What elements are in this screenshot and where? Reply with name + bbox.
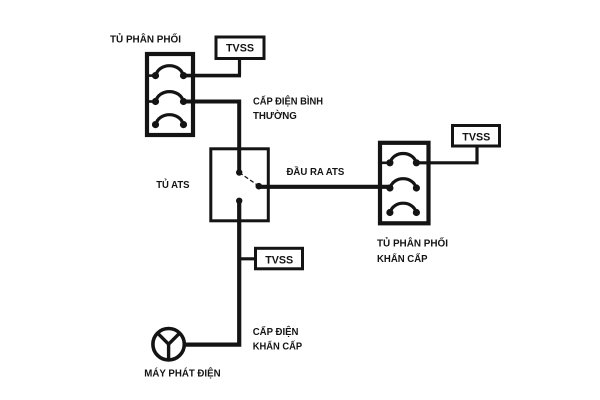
label MAY PHAT DIEN xyxy=(144,367,220,380)
svg-text:TVSS: TVSS xyxy=(462,131,490,143)
svg-text:TVSS: TVSS xyxy=(265,255,293,267)
label CAP DIEN BINH THUONG xyxy=(253,94,323,121)
emergency distribution panel box xyxy=(380,143,429,224)
svg-text:TỦ PHÂN PHỐI: TỦ PHÂN PHỐI xyxy=(110,32,181,46)
ATS switch: emergency contact xyxy=(236,198,242,204)
distribution panel box TU PHAN PHOI xyxy=(147,54,193,135)
svg-text:TVSS: TVSS xyxy=(226,42,254,54)
svg-text:THƯỜNG: THƯỜNG xyxy=(253,109,297,122)
breaker 3 of panel 2 xyxy=(387,203,420,215)
breaker 1 of panel 1 xyxy=(147,66,187,79)
svg-text:KHẨN CẤP: KHẨN CẤP xyxy=(377,252,428,265)
ATS switch: output contact xyxy=(255,183,262,190)
ATS switch blade xyxy=(239,173,259,187)
label DAU RA ATS xyxy=(287,165,345,178)
svg-text:MÁY PHÁT ĐIỆN: MÁY PHÁT ĐIỆN xyxy=(144,367,220,380)
ATS switch: normal contact xyxy=(236,169,242,175)
svg-text:CẤP ĐIỆN BÌNH: CẤP ĐIỆN BÌNH xyxy=(253,94,323,107)
label TU PHAN PHOI KHAN CAP xyxy=(377,235,448,265)
label CAP DIEN KHAN CAP xyxy=(253,325,303,353)
svg-text:ĐẦU RA ATS: ĐẦU RA ATS xyxy=(287,165,345,178)
svg-text:TỦ ATS: TỦ ATS xyxy=(156,178,189,191)
wire: panel1 middle breaker to ATS (normal supply) xyxy=(184,102,240,173)
label TU ATS xyxy=(156,178,189,191)
svg-text:CẤP ĐIỆN: CẤP ĐIỆN xyxy=(253,325,299,338)
TVSS box 1 xyxy=(216,37,264,59)
TVSS box 2 xyxy=(453,126,500,147)
wire: emergency panel top breaker to TVSS2 xyxy=(416,146,477,163)
TVSS box 3 (on emergency feeder) xyxy=(256,248,303,268)
label TU PHAN PHOI (panel 1) xyxy=(110,32,181,46)
breaker 3 of panel 1 xyxy=(152,115,186,128)
wire: ATS output to emergency panel xyxy=(259,185,390,189)
svg-text:TỦ PHÂN PHỐI: TỦ PHÂN PHỐI xyxy=(377,235,448,249)
svg-text:KHẨN CẤP: KHẨN CẤP xyxy=(253,340,303,353)
wire: ATS bottom to generator (emergency supply) xyxy=(185,201,239,345)
ATS cabinet box xyxy=(211,149,268,221)
wire: TVSS3 tap on emergency feeder xyxy=(238,257,255,260)
breaker 2 of panel 2 xyxy=(387,179,420,191)
wire: TVSS1 drop to panel1 top breaker xyxy=(184,58,242,76)
breaker 2 of panel 1 xyxy=(147,92,187,105)
generator symbol xyxy=(153,329,184,360)
breaker 1 of panel 2 xyxy=(380,154,420,166)
